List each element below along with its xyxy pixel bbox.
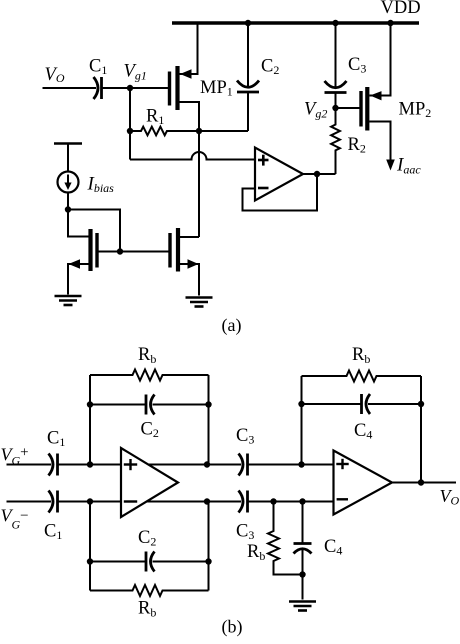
capacitor C2 <box>237 23 259 131</box>
junction dot Vg1/R1 <box>127 128 133 134</box>
resistor Rb A2 feedback <box>302 371 422 382</box>
junction dot R1/drain <box>196 128 202 134</box>
wire V_O input <box>43 87 97 89</box>
VDD rail <box>172 21 419 25</box>
transistor M2 source arrow <box>188 259 199 269</box>
wire A2 feedback right <box>420 376 422 483</box>
junction dots A1 top feedback <box>87 401 93 407</box>
wire A2 output <box>392 482 456 484</box>
wire A1 bottom feedback left <box>89 502 91 591</box>
wire bottom rail to A2 <box>248 501 337 503</box>
wire MP1 drain down to mirror <box>198 131 200 237</box>
svg-text:(a): (a) <box>222 315 242 336</box>
wire Ibias to node <box>67 193 69 210</box>
junction dot Ibias node <box>65 206 71 212</box>
resistor Rb bottom feedback <box>90 585 209 596</box>
junction dot output/feedback <box>314 171 320 177</box>
resistor R1 <box>130 127 248 136</box>
resistor Rb grounded <box>268 502 303 575</box>
current source Ibias <box>58 172 79 193</box>
junction dot rail/C3 <box>332 20 338 26</box>
capacitor C2 bottom feedback <box>90 552 209 572</box>
wire bottom rail mid <box>58 501 242 503</box>
junction dots A1 bottom feedback <box>87 558 93 564</box>
transistor MP2 source arrow <box>370 91 382 100</box>
capacitor C3 <box>325 23 347 108</box>
transistor M1 left mirror <box>68 229 97 295</box>
wire VG- input <box>7 501 52 503</box>
ground right <box>186 298 213 307</box>
capacitor C1 bottom <box>49 491 58 513</box>
wire C1 to MP1 gate <box>102 87 169 89</box>
transistor MP1 <box>170 23 200 131</box>
capacitor C1 top <box>49 454 58 476</box>
capacitor C3 bottom <box>239 491 248 513</box>
junction dot Rb/C4 <box>299 571 305 577</box>
capacitor C4 grounded <box>294 502 312 600</box>
wire Vg2 to MP2 gate <box>336 107 360 109</box>
junction dots A2 feedback <box>298 401 304 407</box>
current Iaac arrow <box>386 160 395 171</box>
wire op-amp output <box>303 173 336 175</box>
op-amp A1 <box>121 448 178 517</box>
node Vg2 <box>332 105 338 111</box>
node Vg1 <box>127 85 133 91</box>
wire mirror gate line <box>99 251 169 253</box>
svg-text:VDD: VDD <box>381 0 421 18</box>
capacitor C3 top <box>239 454 248 476</box>
ground left <box>55 296 82 305</box>
wire A1 bottom feedback right <box>208 502 210 591</box>
wire top rail mid <box>58 464 242 466</box>
capacitor C4 A2 feedback <box>302 394 422 414</box>
junction dot rail/MP2 <box>387 20 393 26</box>
PART A <box>172 21 419 25</box>
junction dot output/feedback <box>418 479 424 485</box>
wire op-amp feedback loop <box>243 174 318 211</box>
resistor R2 <box>331 108 340 174</box>
wire top rail to A2 <box>248 464 337 466</box>
wire Vg1 down <box>129 88 131 160</box>
wire VG+ input <box>7 464 52 466</box>
op-amp U1 <box>255 148 303 201</box>
resistor Rb top feedback <box>90 370 209 381</box>
transistor MP2 <box>361 23 391 160</box>
wire A2 feedback left <box>301 376 303 465</box>
junction dot rail/C2 <box>245 20 251 26</box>
wire Vg1 to op-amp with crossover hump <box>130 152 255 159</box>
wire node to M1 drain <box>68 210 89 237</box>
wire node to gate line <box>68 210 120 252</box>
svg-text:(b): (b) <box>222 617 243 638</box>
transistor MP1 source arrow <box>180 69 192 79</box>
junction dots input rails <box>87 461 93 467</box>
wire A1 top feedback left <box>89 375 91 465</box>
wire A1 top feedback right <box>208 375 210 465</box>
capacitor C1 <box>94 77 102 99</box>
transistor M1 source arrow <box>69 259 81 269</box>
capacitor C2 top feedback <box>90 395 209 415</box>
transistor M2 right mirror <box>170 228 199 296</box>
junction dot gate line <box>117 248 123 254</box>
wire bar to Ibias <box>67 144 69 172</box>
current source Ibias top bar <box>54 142 82 145</box>
op-amp A2 <box>334 451 393 515</box>
ground b <box>289 602 316 611</box>
